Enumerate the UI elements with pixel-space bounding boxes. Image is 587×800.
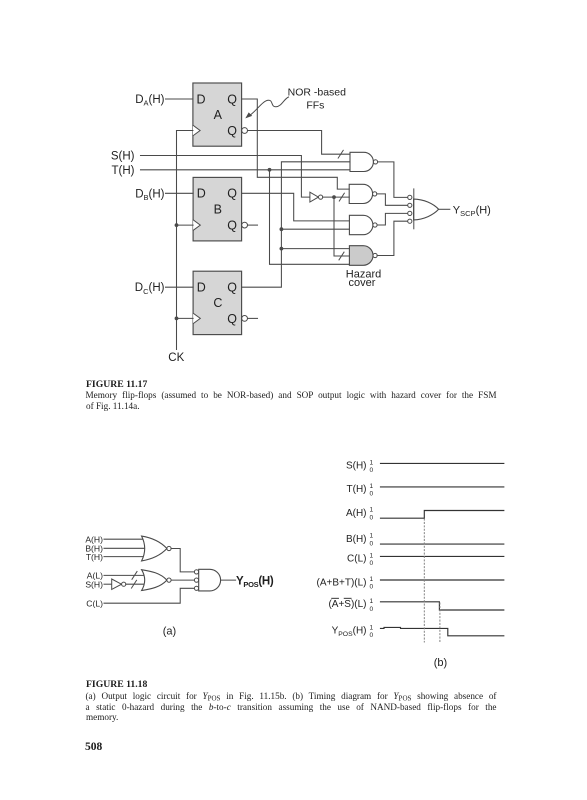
wire S(H) to inverter — [104, 583, 112, 585]
wire S to inverter — [141, 156, 310, 198]
svg-text:DA(H): DA(H) — [135, 94, 164, 108]
svg-text:0: 0 — [369, 606, 373, 613]
NAND gate G3 — [349, 215, 372, 234]
wire DC — [166, 286, 194, 288]
flip-flop B — [193, 177, 242, 241]
bubble G1 — [373, 160, 377, 164]
svg-text:A: A — [214, 108, 223, 122]
svg-text:1: 1 — [369, 483, 373, 490]
AND gate G7 — [199, 569, 221, 591]
wire T branch to G4 — [270, 170, 350, 264]
dotted line b-to-c 2 — [439, 603, 441, 642]
wire CK vertical — [176, 131, 178, 350]
svg-text:Q: Q — [227, 312, 237, 326]
svg-text:T(H): T(H) — [112, 165, 135, 177]
annotation squiggle arrow — [251, 97, 289, 115]
bubble C Qbar — [242, 316, 248, 322]
bubble AND input 1 (fig a) — [194, 570, 198, 574]
svg-text:C: C — [213, 296, 222, 310]
bubble G4 — [373, 253, 377, 257]
junction CQ-G3 — [280, 227, 284, 231]
caption FIGURE 11.17 — [86, 380, 147, 390]
svg-text:T(H): T(H) — [347, 484, 367, 495]
bubble OR input 2 — [408, 203, 412, 207]
bubble U1 — [319, 195, 323, 199]
wire CK to A clock — [177, 130, 193, 132]
junction U1 out — [332, 195, 336, 199]
wire G6 out — [171, 579, 194, 581]
svg-text:0: 0 — [369, 584, 373, 591]
bubble G3 — [373, 223, 377, 227]
svg-text:Q: Q — [227, 219, 237, 233]
bubble U3 — [122, 582, 126, 586]
svg-text:CK: CK — [168, 352, 184, 364]
svg-text:0: 0 — [369, 467, 373, 474]
svg-text:0: 0 — [369, 560, 373, 567]
wire A Q to G2 — [242, 99, 350, 189]
slash on U1 out — [339, 193, 344, 201]
svg-text:C(L): C(L) — [347, 554, 366, 565]
svg-text:T(H): T(H) — [86, 552, 103, 562]
svg-text:Q: Q — [227, 281, 237, 295]
page number — [85, 742, 102, 752]
svg-text:YPOS(H): YPOS(H) — [332, 626, 367, 638]
svg-text:(A+B+T)(L): (A+B+T)(L) — [316, 577, 366, 588]
svg-text:1: 1 — [369, 533, 373, 540]
wire C Qbar stub — [248, 317, 258, 319]
svg-text:cover: cover — [349, 277, 376, 289]
svg-text:D: D — [197, 187, 206, 201]
NOR gate G5 — [142, 536, 167, 561]
svg-text:Q: Q — [227, 187, 237, 201]
wire T — [141, 169, 351, 171]
bubble G2 — [373, 192, 377, 196]
svg-text:Q: Q — [227, 92, 237, 106]
svg-text:0: 0 — [369, 632, 373, 639]
bubble OR input 1 — [408, 195, 412, 199]
bubble AND input 3 (fig a) — [194, 586, 198, 590]
svg-text:B: B — [214, 202, 222, 216]
slash on A Qbar wire — [338, 150, 343, 158]
svg-text:A(H): A(H) — [346, 508, 367, 519]
wire A(L) — [104, 574, 146, 576]
bubble OR input 4 — [408, 219, 412, 223]
wire G2 out — [377, 194, 408, 205]
inverter U1 — [310, 192, 319, 202]
wire YPOS out — [221, 579, 236, 581]
wire A(H) — [104, 538, 147, 540]
svg-text:D: D — [197, 92, 206, 106]
wire YSCP out — [439, 208, 450, 210]
junction T — [268, 168, 272, 172]
svg-text:B(H): B(H) — [346, 534, 367, 545]
svg-text:1: 1 — [369, 459, 373, 466]
svg-text:(a): (a) — [163, 625, 176, 637]
svg-text:1: 1 — [369, 552, 373, 559]
wire C(L) — [104, 588, 194, 603]
flip-flop A — [193, 83, 242, 146]
svg-text:YPOS(H): YPOS(H) — [236, 575, 274, 589]
bubble G6 — [167, 578, 171, 582]
svg-text:DC(H): DC(H) — [135, 282, 165, 296]
wire B Q to G3 — [242, 193, 350, 221]
svg-text:Q: Q — [227, 124, 237, 138]
svg-text:FFs: FFs — [306, 99, 324, 111]
wire B Qbar stub — [248, 224, 258, 226]
svg-text:YSCP(H): YSCP(H) — [453, 204, 491, 218]
wire G3 out — [377, 213, 408, 225]
svg-text:S(H): S(H) — [85, 580, 103, 590]
svg-text:D: D — [197, 281, 206, 295]
wire T(H) — [104, 556, 147, 558]
NAND gate G2 — [349, 184, 372, 203]
junction CQ-G4 — [280, 247, 284, 251]
bubble OR input 3 — [408, 211, 412, 215]
svg-text:S(H): S(H) — [346, 461, 367, 472]
svg-text:0: 0 — [369, 540, 373, 547]
inverter U3 — [112, 579, 122, 589]
bubble A Qbar — [242, 128, 248, 134]
junction CK-C — [175, 317, 179, 321]
svg-text:1: 1 — [369, 576, 373, 583]
wire CK to B clock — [177, 224, 194, 226]
svg-text:NOR -based: NOR -based — [288, 87, 347, 99]
wire U1 out to G2 — [323, 196, 350, 198]
svg-text:1: 1 — [369, 624, 373, 631]
svg-text:DB(H): DB(H) — [135, 188, 164, 202]
svg-text:C(L): C(L) — [86, 599, 103, 609]
dotted line b-to-c 1 — [423, 519, 425, 642]
bubble AND input 2 (fig a) — [194, 578, 198, 582]
OR input bar — [413, 189, 415, 229]
svg-text:0: 0 — [369, 514, 373, 521]
NAND gate G1 — [350, 152, 373, 171]
caption FIGURE 11.18 — [86, 680, 147, 690]
OR gate U2 — [414, 199, 439, 220]
wire U3 out — [126, 583, 146, 585]
wire A Qbar to G1 — [248, 131, 351, 155]
NAND gate G4 hazard cover — [349, 246, 373, 266]
wire CK to C clock — [177, 317, 194, 319]
wire C Q riser — [242, 162, 350, 287]
svg-text:0: 0 — [369, 491, 373, 498]
wire G5 out — [171, 549, 194, 572]
svg-text:(b): (b) — [434, 657, 447, 669]
svg-text:S(H): S(H) — [111, 151, 135, 163]
bubble B Qbar — [242, 222, 248, 228]
slash on G4 middle input — [339, 252, 344, 260]
wire DB — [166, 192, 194, 194]
slash on A(L) — [132, 571, 137, 579]
wire CQ branch to G3 — [281, 228, 349, 230]
flip-flop C — [193, 271, 242, 334]
svg-text:1: 1 — [369, 598, 373, 605]
junction CK-B — [175, 223, 179, 227]
svg-text:1: 1 — [369, 507, 373, 514]
wire B(H) — [104, 547, 151, 549]
wire G1 out — [378, 162, 408, 198]
wire G4 out — [377, 221, 408, 255]
NOR gate G6 — [142, 570, 167, 591]
wire CQ branch to G4 — [281, 248, 349, 250]
slash on U3 out — [131, 580, 136, 588]
svg-text:(A+S)(L): (A+S)(L) — [328, 599, 366, 610]
wire DA — [166, 98, 193, 100]
wire U1 branch to G4 — [334, 197, 349, 256]
bubble G5 — [167, 546, 171, 550]
